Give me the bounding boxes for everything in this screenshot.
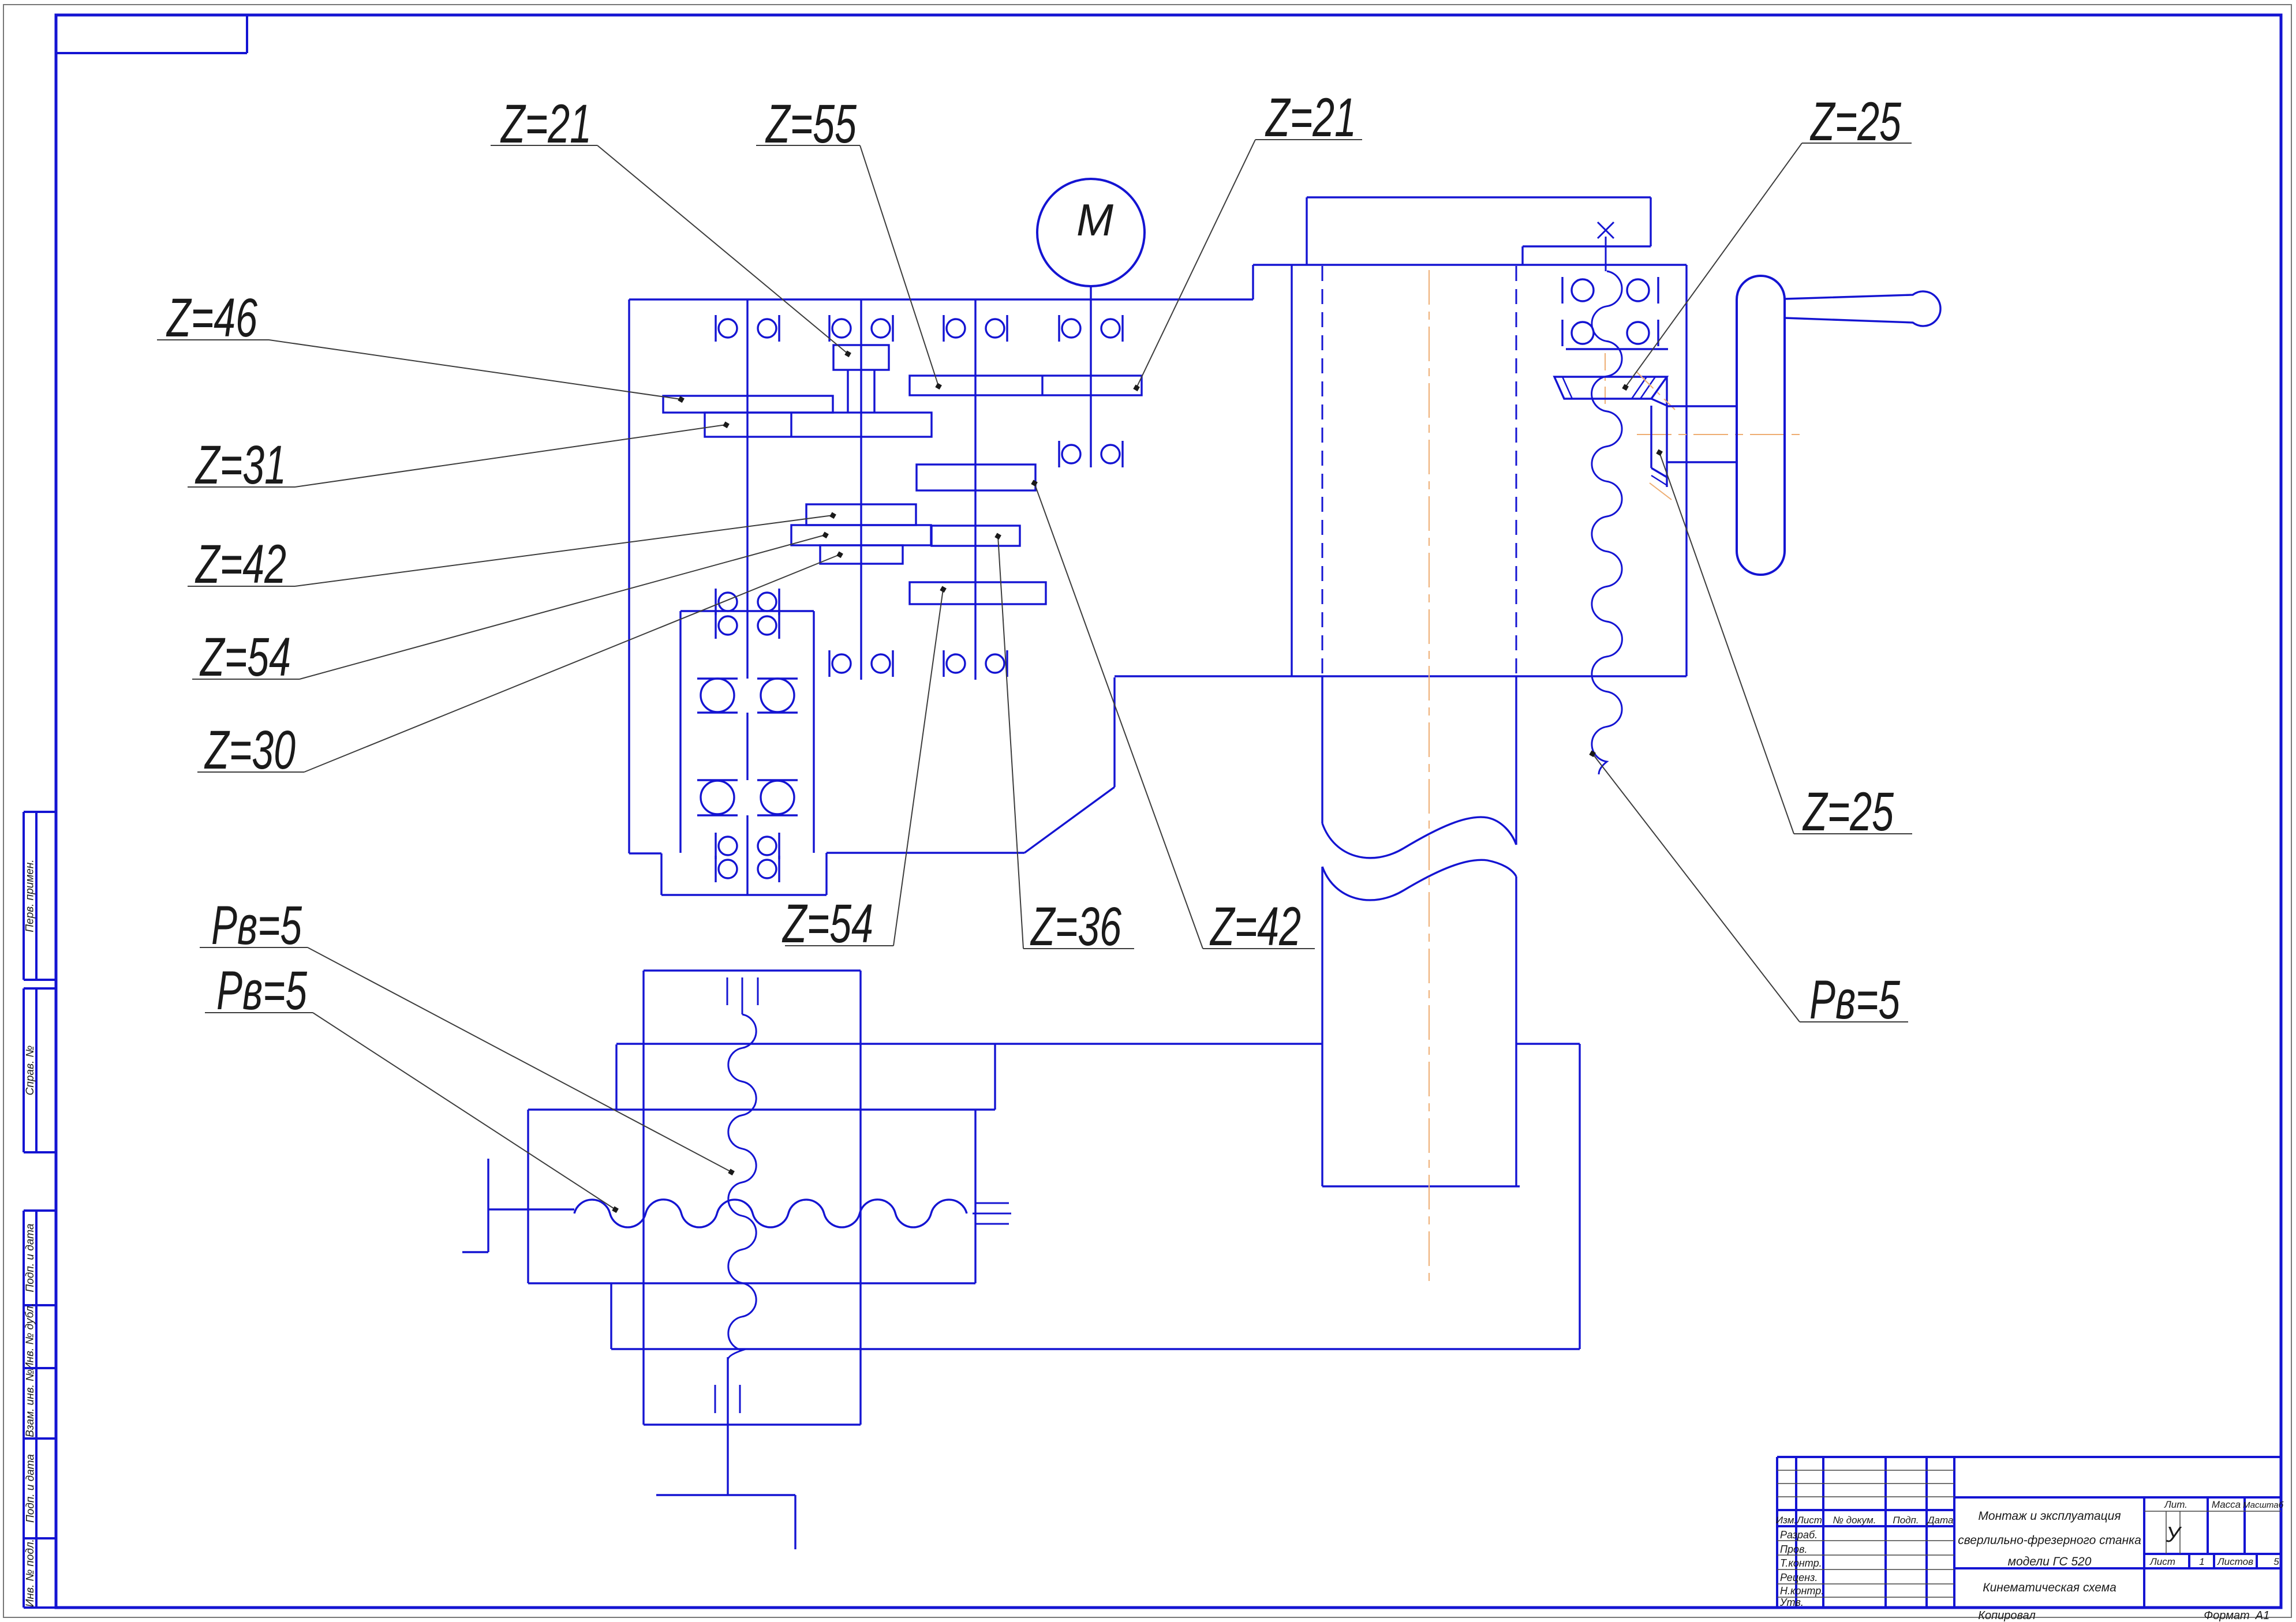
svg-text:Разраб.: Разраб. bbox=[1780, 1529, 1818, 1541]
svg-text:М: М bbox=[1076, 194, 1113, 245]
svg-text:модели ГС 520: модели ГС 520 bbox=[2008, 1555, 2092, 1568]
svg-text:Справ. №: Справ. № bbox=[24, 1046, 36, 1095]
svg-text:Взам. инв. №: Взам. инв. № bbox=[24, 1369, 36, 1437]
svg-text:Перв. примен.: Перв. примен. bbox=[24, 859, 36, 932]
svg-text:У: У bbox=[2166, 1523, 2182, 1547]
svg-text:Листов: Листов bbox=[2217, 1556, 2253, 1567]
svg-text:Масса: Масса bbox=[2212, 1499, 2241, 1510]
svg-text:Лист: Лист bbox=[1796, 1515, 1822, 1526]
svg-text:Масштаб: Масштаб bbox=[2243, 1500, 2284, 1510]
svg-text:Дата: Дата bbox=[1927, 1515, 1954, 1526]
svg-text:5: 5 bbox=[2273, 1556, 2279, 1567]
svg-text:Инв. № дубл.: Инв. № дубл. bbox=[24, 1303, 36, 1370]
svg-text:Подп. и дата: Подп. и дата bbox=[25, 1454, 37, 1523]
svg-text:Подп. и дата: Подп. и дата bbox=[24, 1224, 36, 1293]
svg-text:Инв. № подл.: Инв. № подл. bbox=[24, 1539, 36, 1607]
svg-text:Изм.: Изм. bbox=[1776, 1515, 1797, 1526]
svg-text:Пров.: Пров. bbox=[1780, 1544, 1807, 1555]
svg-text:Подп.: Подп. bbox=[1893, 1515, 1919, 1526]
svg-text:1: 1 bbox=[2199, 1556, 2204, 1567]
svg-text:сверлильно-фрезерного станка: сверлильно-фрезерного станка bbox=[1958, 1534, 2141, 1547]
svg-text:Утв.: Утв. bbox=[1779, 1597, 1804, 1608]
svg-text:Монтаж и эксплуатация: Монтаж и эксплуатация bbox=[1978, 1509, 2121, 1523]
svg-text:Реценз.: Реценз. bbox=[1780, 1572, 1818, 1583]
svg-text:№ докум.: № докум. bbox=[1833, 1515, 1876, 1526]
svg-text:Кинематическая схема: Кинематическая схема bbox=[1983, 1581, 2116, 1594]
svg-text:Копировал: Копировал bbox=[1978, 1609, 2035, 1622]
svg-text:Лист: Лист bbox=[2149, 1556, 2175, 1567]
svg-text:Лит.: Лит. bbox=[2164, 1499, 2187, 1510]
svg-text:Т.контр.: Т.контр. bbox=[1780, 1557, 1822, 1569]
svg-text:А1: А1 bbox=[2255, 1609, 2269, 1622]
svg-text:Формат: Формат bbox=[2204, 1609, 2249, 1622]
svg-text:Н.контр.: Н.контр. bbox=[1780, 1585, 1824, 1597]
